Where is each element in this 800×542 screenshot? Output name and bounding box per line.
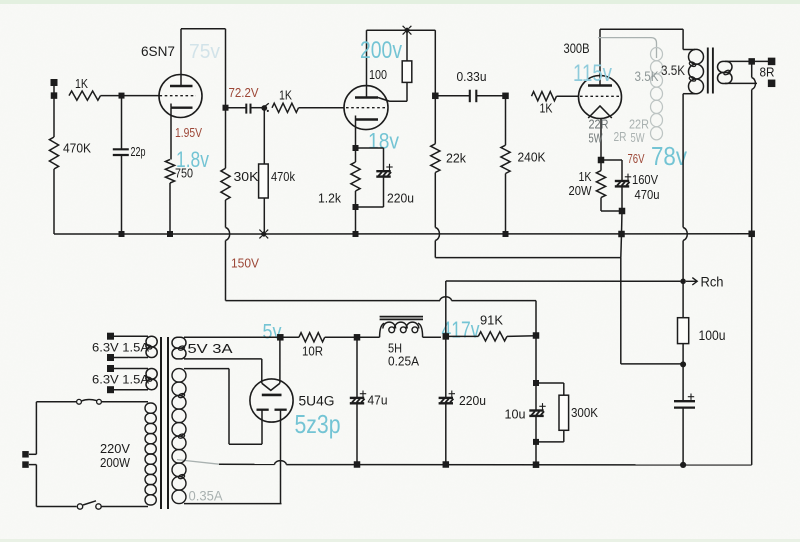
OPT secondary [718, 61, 772, 83]
svg-text:0.35A: 0.35A [189, 489, 223, 504]
OPT primary 3.5K [661, 49, 704, 93]
svg-text:1K: 1K [279, 88, 292, 103]
arrow Rch [686, 275, 724, 290]
resistor 100 plate [369, 30, 412, 101]
node grid V2 junction [251, 103, 269, 112]
OPT core [708, 48, 713, 94]
label 1.95V [175, 126, 203, 140]
label 200v [360, 37, 402, 64]
resistor 1K input [69, 76, 101, 100]
svg-text:1K: 1K [540, 101, 553, 116]
svg-text:78v: 78v [651, 141, 687, 171]
rectifier 5U4G [250, 337, 335, 422]
svg-text:8R: 8R [760, 65, 775, 80]
capacitor 220u cathode [356, 148, 415, 207]
terminal mains L [22, 451, 29, 458]
label 1.8v [176, 147, 209, 172]
wire OPT primary bottom feed [682, 94, 684, 228]
terminal 6.3VB bottom [107, 386, 114, 393]
resistor 300K [536, 383, 598, 442]
input terminal [51, 79, 58, 86]
wire mains left top [29, 402, 36, 455]
wire 300B plate to OPT [600, 29, 683, 49]
svg-text:220V: 220V [100, 441, 130, 456]
inductor 5H choke [357, 317, 441, 369]
node bottom bus cap [680, 462, 686, 468]
ghost label 22R 5W far [629, 117, 649, 146]
capacitor 100u box [678, 281, 726, 364]
wire 1K to grid node [101, 95, 160, 97]
node gnd 47u [354, 461, 361, 468]
node feedback to ground bus [748, 231, 755, 238]
node cathode network bottom [353, 204, 359, 234]
node 417v [443, 333, 450, 340]
wire 300K node to bus [535, 442, 537, 465]
wire 10R to 47u node [325, 336, 357, 338]
svg-text:470K: 470K [63, 141, 91, 156]
ground bus psu [219, 461, 752, 465]
terminal 6.3VA bottom [107, 354, 114, 361]
svg-text:22R: 22R [589, 117, 609, 132]
node 240K junction [502, 93, 509, 100]
capacitor coupling stage1 [226, 104, 251, 114]
svg-text:220u: 220u [387, 191, 414, 206]
node gnd 240K [503, 231, 509, 237]
resistor 10R [280, 333, 324, 359]
PT winding 6.3V B [92, 369, 157, 390]
wire 22k line to ground tie [435, 241, 621, 258]
svg-text:115v: 115v [573, 60, 612, 87]
svg-text:1K: 1K [75, 76, 88, 91]
svg-text:470u: 470u [635, 187, 660, 202]
svg-text:300B: 300B [564, 41, 590, 56]
svg-text:75v: 75v [189, 41, 220, 63]
svg-text:5W: 5W [631, 130, 646, 145]
resistor 30K [221, 108, 259, 228]
svg-text:5V 3A: 5V 3A [188, 341, 233, 356]
resistor 470k grid V2 [259, 108, 296, 234]
node 300K top [533, 336, 539, 387]
ghost center tap [177, 460, 219, 465]
wire plate rail V1 [181, 29, 226, 108]
svg-text:1.95V: 1.95V [175, 126, 203, 140]
svg-text:91K: 91K [480, 313, 503, 328]
svg-text:20W: 20W [569, 183, 593, 198]
node Rch [680, 279, 686, 285]
switch mains bottom [77, 501, 101, 509]
label 78v [651, 141, 687, 171]
svg-text:100: 100 [369, 67, 387, 82]
capacitor 47u [350, 337, 388, 464]
triode V2 6SN7b [344, 30, 390, 148]
svg-text:5U4G: 5U4G [299, 394, 335, 409]
ghost rail [598, 38, 657, 58]
terminal mains N [22, 461, 29, 468]
PT primary 220V [36, 402, 156, 507]
label 5z3p [295, 409, 341, 439]
PT winding 5V 3A [172, 337, 280, 359]
resistor 240K [501, 96, 546, 234]
resistor 1.2k cathode [318, 148, 360, 207]
label 72.2V [229, 86, 260, 100]
svg-text:0.33u: 0.33u [457, 69, 487, 84]
node gnd 470k [259, 230, 268, 239]
label 417v [442, 317, 480, 343]
node rectifier output [277, 334, 284, 341]
svg-text:6SN7: 6SN7 [141, 44, 175, 59]
ghost label 3.5K [635, 69, 659, 84]
terminal 8R top [768, 58, 776, 66]
PT core [161, 337, 168, 509]
wire input terminal to node [53, 83, 55, 96]
hop 22k line over ground bus [435, 228, 439, 241]
resistor 1K 20W [569, 160, 606, 211]
terminal 8R bottom [760, 65, 776, 88]
label 5v [263, 321, 282, 344]
wire ground tie vertical [620, 234, 623, 364]
wire 1K to V2 grid [299, 107, 345, 109]
node plate rail junction [403, 26, 412, 35]
ghost winding [651, 48, 663, 140]
svg-text:47u: 47u [368, 393, 388, 408]
node 300K bottom [533, 439, 539, 445]
wire B+ to Rch node [682, 241, 684, 282]
wire plate rail V2 [367, 30, 436, 96]
svg-text:0.25A: 0.25A [388, 354, 419, 369]
wire ground tie horizontal [621, 363, 683, 365]
node bias network bottom [601, 208, 625, 234]
label 150V [231, 257, 260, 271]
svg-text:3.5K: 3.5K [661, 62, 686, 78]
resistor 22k [431, 96, 467, 228]
svg-text:5W: 5W [589, 131, 604, 146]
node gnd 300K [533, 461, 540, 468]
capacitor 220u psu [439, 336, 486, 464]
wire right anode down [280, 420, 282, 504]
label 76V [628, 152, 645, 166]
hop B+ over ground bus [683, 228, 687, 241]
wire feedback line [752, 61, 756, 233]
ghost label 0.35A [189, 489, 223, 504]
resistor 1K grid V2 [272, 88, 299, 113]
svg-text:76V: 76V [628, 152, 645, 166]
node filament junction [598, 157, 605, 164]
svg-text:22k: 22k [446, 151, 466, 166]
node grid V1 [119, 93, 125, 99]
PT winding HV [172, 369, 282, 504]
node gnd 750 [167, 231, 173, 237]
svg-text:470k: 470k [271, 169, 295, 184]
capacitor 470u 160V [601, 160, 660, 211]
node gnd 1.2k [353, 231, 359, 237]
wire mains left bottom [29, 465, 36, 507]
capacitor 10u [505, 383, 546, 442]
label 115v [573, 60, 612, 87]
svg-text:750: 750 [175, 166, 193, 181]
node decoupling [680, 361, 686, 367]
ghost label 22R 5W near [589, 117, 609, 146]
label 18v [368, 129, 399, 154]
svg-text:6.3V 1.5A: 6.3V 1.5A [92, 375, 149, 387]
resistor 1K grid 300B [532, 92, 579, 116]
svg-text:6.3V 1.5A: 6.3V 1.5A [92, 343, 149, 355]
svg-text:3.5K: 3.5K [635, 69, 659, 84]
resistor 750 cathode [165, 160, 193, 235]
node gnd 220u [443, 461, 450, 468]
wire 150V feed [226, 297, 537, 336]
node 150V junction [533, 332, 540, 339]
svg-text:220u: 220u [459, 393, 486, 408]
svg-text:2R: 2R [614, 129, 627, 144]
wire right edge down [751, 234, 753, 465]
node secondary feedback tap [748, 58, 755, 65]
hop 30K line over ground bus [226, 228, 230, 241]
svg-text:160V: 160V [632, 172, 658, 187]
svg-text:10u: 10u [505, 407, 526, 422]
svg-text:300K: 300K [571, 405, 598, 420]
node V2 plate junction [432, 93, 439, 100]
node coupling junction [223, 105, 229, 111]
terminal 6.3VA top [107, 333, 114, 340]
svg-text:240K: 240K [518, 150, 546, 165]
ghost label 2R [614, 129, 627, 144]
svg-text:22p: 22p [131, 144, 146, 159]
svg-text:Rch: Rch [701, 275, 724, 290]
svg-text:100u: 100u [699, 328, 726, 343]
resistor 91K [446, 313, 536, 342]
node 47u [354, 334, 361, 341]
power triode 300B [564, 29, 622, 160]
node bias ground [618, 231, 625, 238]
triode V1 6SN7 [141, 29, 202, 160]
switch mains top [77, 399, 102, 404]
wire 417v to Rch line [446, 281, 681, 336]
svg-text:200W: 200W [100, 455, 131, 470]
svg-text:10R: 10R [302, 344, 323, 359]
svg-text:1.2k: 1.2k [318, 191, 341, 206]
capacitor 0.33u [435, 69, 505, 102]
wire 30K line to 150V feed [225, 241, 227, 301]
resistor 470K grid leak [49, 96, 91, 234]
ground bus [54, 233, 752, 235]
wire HV top to left anode [229, 369, 262, 445]
svg-text:1K: 1K [579, 169, 592, 184]
svg-text:72.2V: 72.2V [229, 86, 260, 100]
node gnd 22p [119, 231, 125, 237]
node V2 cathode [353, 145, 359, 151]
svg-text:5z3p: 5z3p [295, 409, 341, 439]
svg-text:30K: 30K [234, 169, 259, 184]
terminal 6.3VB top [107, 365, 114, 372]
label 75v ghost [189, 41, 220, 63]
svg-text:150V: 150V [231, 257, 260, 271]
capacitor output node [674, 364, 695, 465]
PT winding 6.3V A [92, 336, 157, 357]
node input junction [51, 92, 58, 99]
capacitor 22p [113, 96, 146, 234]
svg-text:200v: 200v [360, 37, 402, 64]
